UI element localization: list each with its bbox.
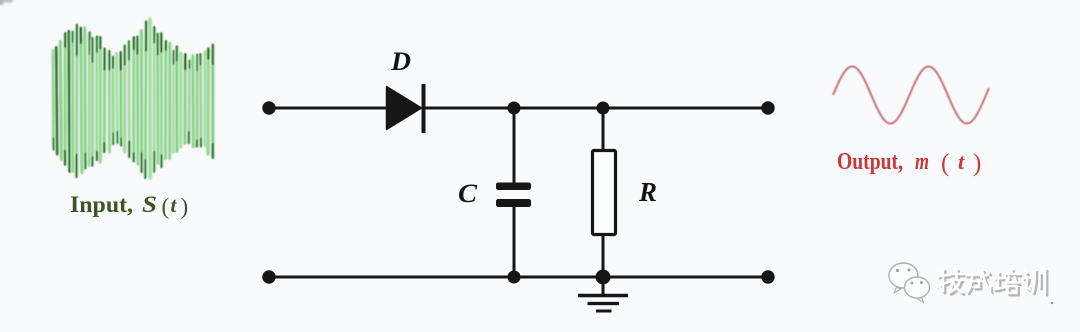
wire: bottom rail xyxy=(269,276,768,279)
wire: top rail diode to output xyxy=(422,107,768,110)
watermark: text 技成培训 (hand-drawn strokes, white over gray shadow) xyxy=(938,269,1048,295)
node: junction bottom at capacitor xyxy=(508,271,521,284)
big chat bubble xyxy=(889,263,918,288)
diode D xyxy=(387,87,422,130)
label: Input, S(t) xyxy=(70,192,188,219)
speck bottom-right xyxy=(1051,302,1053,304)
diode D cathode bar xyxy=(422,84,426,133)
svg-text:C: C xyxy=(458,179,478,208)
node: input bottom terminal xyxy=(262,270,275,283)
watermark: WeChat logo xyxy=(889,263,930,303)
small chat bubble xyxy=(905,277,930,298)
wire: resistor branch upper xyxy=(602,108,605,152)
wire: capacitor branch upper xyxy=(513,108,516,184)
svg-text:(: ( xyxy=(162,194,170,219)
wire: top rail left segment (input node to diode) xyxy=(269,107,387,110)
node: junction top at resistor xyxy=(597,102,610,115)
svg-text:t: t xyxy=(958,149,965,174)
svg-text:Output,: Output, xyxy=(837,149,903,175)
wire: capacitor branch lower xyxy=(513,206,516,277)
node: junction bottom at resistor / ground xyxy=(596,270,611,285)
input signal waveform S(t) (green AM carrier) xyxy=(53,19,213,178)
node: junction top at capacitor xyxy=(508,102,521,115)
svg-text:S: S xyxy=(142,192,157,217)
svg-text:): ) xyxy=(181,194,189,219)
node: input top terminal xyxy=(262,101,275,114)
wire: resistor branch lower xyxy=(602,233,605,277)
svg-text:(: ( xyxy=(941,150,949,177)
svg-text:): ) xyxy=(973,150,981,177)
svg-text:m: m xyxy=(915,149,929,175)
corner smudge top-left xyxy=(0,0,13,5)
capacitor C bottom plate xyxy=(496,199,531,207)
node: output bottom terminal xyxy=(761,270,774,283)
svg-text:Input,: Input, xyxy=(70,192,133,217)
svg-text:R: R xyxy=(638,177,657,207)
ground xyxy=(602,277,605,295)
svg-text:D: D xyxy=(390,47,411,76)
output sine wave m(t) xyxy=(833,67,989,124)
resistor R body xyxy=(593,151,616,235)
capacitor C top plate xyxy=(496,183,531,191)
label: Output, m(t) xyxy=(837,149,981,177)
node: output top terminal xyxy=(761,101,774,114)
